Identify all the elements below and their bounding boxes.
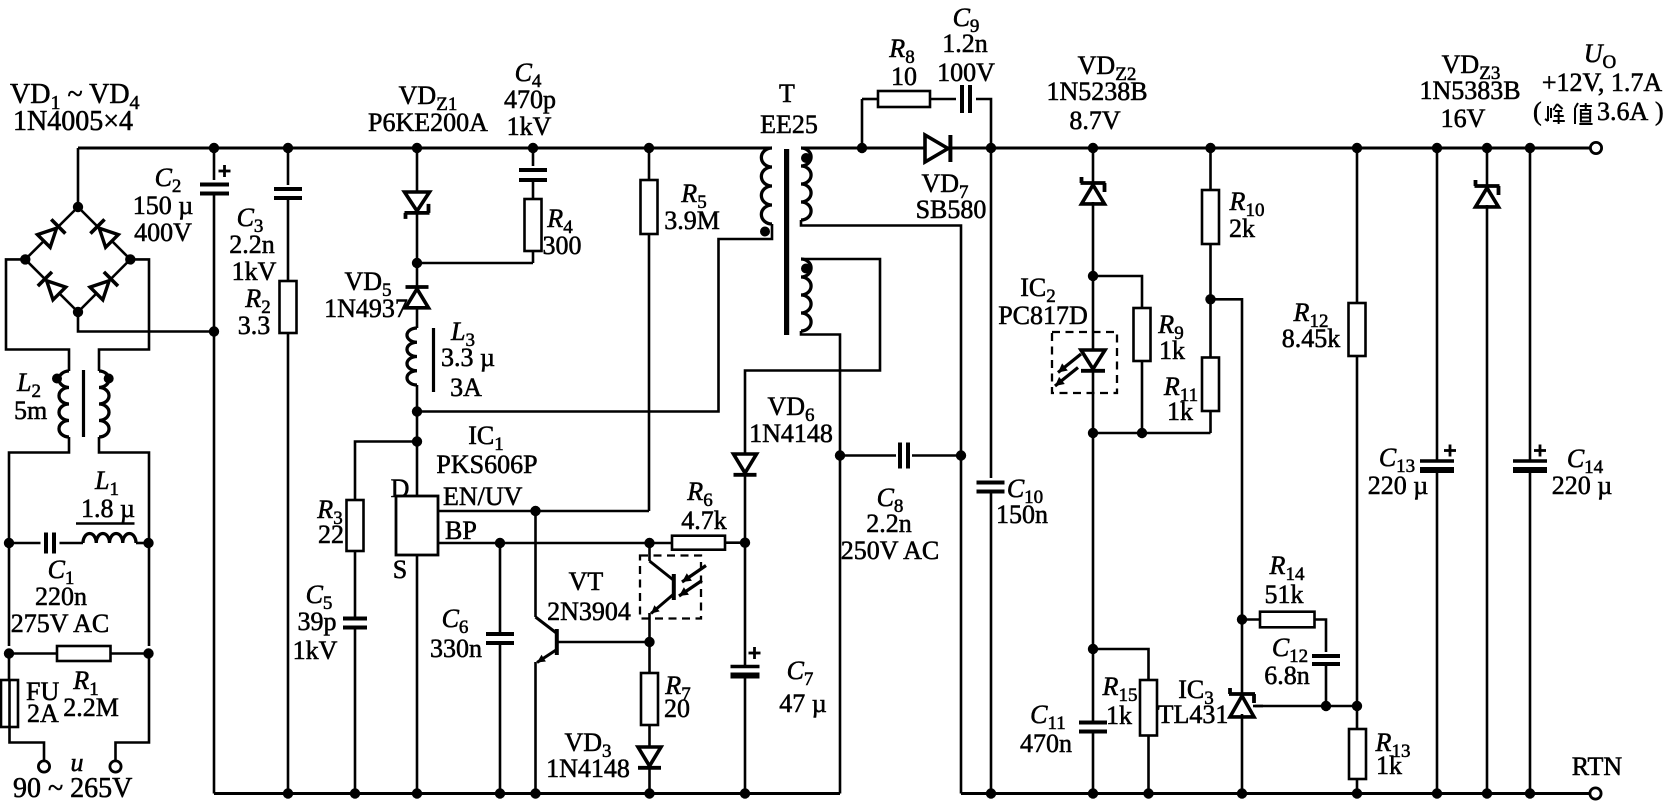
label R12 [1293,298,1329,332]
transistor VT 2N3904 [536,617,558,663]
svg-text:470n: 470n [1020,729,1072,758]
wire C1 left lead [9,542,41,545]
label 1kV C5 [293,636,338,665]
svg-text:220 µ: 220 µ [1368,471,1429,500]
label C2 plus [219,165,231,177]
svg-text:51k: 51k [1265,580,1304,609]
wire R9 top branch [1093,276,1142,308]
label 150n [996,500,1048,529]
label 1kV C4 [507,112,552,141]
label 1k R15 [1106,701,1132,730]
node VT emitter bottom rail junction [530,788,540,798]
label 3.3u [441,343,495,372]
svg-text:EN/UV: EN/UV [443,482,523,511]
wire R12 to ref row [1356,356,1359,706]
node junction BP - R6 - opto [644,538,654,548]
node bridge bottom vertex [73,307,83,317]
bar L1 core line [76,522,135,525]
label C13 plus [1444,445,1456,457]
wire R9 bottom lead [1141,361,1144,433]
wire C11 to bottom rail [1092,732,1095,794]
label R3 [316,495,342,529]
svg-text:4.7k: 4.7k [681,506,727,535]
wire bridge left vertex to L2 [6,259,69,371]
wire R8 to C9 [930,98,956,101]
node junction R14 left [1237,614,1247,624]
wire R3 to C5 [354,551,357,618]
node bridge right vertex [125,254,135,264]
label L2 [16,368,41,402]
resistor R3 [347,500,364,551]
resistor R15 [1140,680,1157,736]
wire left column to fuse [8,654,11,681]
svg-text:22: 22 [318,520,344,549]
label Uo [1584,39,1617,73]
label 2.2n C3 [229,230,275,259]
label SB580 [916,195,987,224]
node rail junction R12 [1352,143,1362,153]
capacitor C3 [274,189,302,198]
wire VD3 to bottom rail [648,768,651,794]
label R10 [1229,187,1265,221]
svg-text:5m: 5m [14,396,47,425]
svg-text:3.6A: 3.6A [1597,97,1649,126]
node junction EN/UV - VT collector [530,506,540,516]
wire R11 bottom lead [1209,411,1212,433]
wire C12 bottom lead [1325,664,1328,706]
label 1N5383B [1419,76,1520,105]
svg-text:PC817D: PC817D [998,301,1088,330]
capacitor C4 [519,170,547,180]
wire VD6 to R6 junction [744,475,747,543]
svg-text:20: 20 [664,694,690,723]
svg-text:2k: 2k [1229,214,1255,243]
wire VDZ1 to junction [416,213,419,263]
label C6 [442,604,469,638]
node junction C8 right [956,450,966,460]
svg-text:D: D [391,474,410,503]
node R15 bottom rail junction [1143,788,1153,798]
wire R10 top lead [1209,148,1212,190]
wire R4 bottom branch [417,262,533,265]
wire R8 branch up [861,99,864,148]
core L2 [82,370,85,437]
wire bridge side top-right [78,207,130,259]
label PC817D [998,301,1088,330]
wire R6 right lead [725,541,745,544]
label VDZ1 [399,81,458,115]
diode VD7 [925,135,950,162]
wire C10 line [990,148,993,478]
label C12 [1272,633,1308,667]
wire VDZ1 top lead [416,148,419,192]
label 3.9M [664,206,720,235]
node rail junction C9/C10 [986,143,996,153]
transformer T secondary winding [801,148,811,220]
svg-text:1N4148: 1N4148 [749,419,833,448]
capacitor C7 [731,667,760,676]
svg-text:EE25: EE25 [760,110,818,139]
label T [779,79,795,108]
wire junction to VD5 [416,263,419,287]
wire TL431 ref row [1255,705,1357,708]
node R13 bottom rail junction [1352,788,1362,798]
wire C7 to bottom rail [744,676,747,794]
wire bridge bottom to junction [78,312,214,332]
node rail junction C4 [528,143,538,153]
transistor IC2 phototransistor [650,561,675,614]
label 1N5238B [1046,77,1147,106]
wire LED to junction [1092,372,1095,434]
label R11 [1163,372,1198,406]
label VT [569,567,604,596]
label L1 [94,466,119,500]
label RTN [1572,752,1623,781]
capacitor C10 [977,483,1005,492]
wire TL431 cathode lead [1241,620,1244,695]
diode VD6 [734,454,757,475]
svg-text:16V: 16V [1441,104,1486,133]
label R9 [1157,310,1183,344]
capacitor C2 [200,185,229,194]
label C13 [1379,443,1415,477]
svg-text:6.8n: 6.8n [1264,661,1310,690]
label VDZ2 [1078,51,1137,85]
wire bias return to bottom rail [839,456,842,794]
diode VD3 [638,747,661,768]
wire VDZ2 top lead [1092,148,1095,183]
terminal RTN [1590,788,1601,799]
label R5 [680,179,706,213]
wire top rail (primary side) [78,147,772,150]
label 2.2M [63,693,119,722]
label P6KE200A [368,108,488,137]
label C3 [237,203,264,237]
label 22 [318,520,344,549]
node junction R6 - VD6 - C7 [740,538,750,548]
label IC2 [1020,273,1056,307]
op-amp IC1 PKS606P body [396,496,438,555]
wire R9 bottom row [1093,432,1211,435]
label TL431 [1158,700,1229,729]
label 100V [937,58,995,87]
wire C10 to bottom rail [990,492,993,794]
wire fuse to input terminal 1 [10,727,45,761]
svg-text:400V: 400V [134,218,192,247]
node C10 bottom rail junction [986,788,996,798]
resistor R9 [1134,308,1151,361]
label 2.2n C8 [866,509,912,538]
label C1 [48,555,75,589]
arrow LED light out 2 [1055,368,1078,387]
wire C3 top lead [287,148,290,185]
svg-text:10: 10 [891,62,917,91]
wire C4 top lead [532,148,535,166]
node R2 bottom rail junction [283,788,293,798]
wire R10 to junction [1209,244,1212,299]
node R1 left junction [4,648,14,658]
svg-text:470p: 470p [504,85,556,114]
node rail junction C2 [209,143,219,153]
svg-text:3.9M: 3.9M [664,206,720,235]
label 1N4148 VD3 [546,754,630,783]
wire BP pin [438,542,672,545]
wire bias bottom lead [801,331,840,456]
node rail junction C3 [283,143,293,153]
svg-text:1k: 1k [1159,336,1185,365]
wire R14 to C12 [1315,620,1327,653]
resistor R6 [672,536,725,550]
diode VD2 (bridge top-right) [90,219,119,248]
node C6 bottom rail junction [495,788,505,798]
wire S pin to bottom rail [416,555,419,794]
node junction L3 bottom [412,406,422,416]
label 250V AC [841,536,940,565]
label R14 [1269,551,1305,585]
capacitor C1 [46,533,54,554]
node secondary phase dot [801,153,811,163]
wire C2 line down to bottom rail [213,195,216,794]
node rail junction R5 [644,143,654,153]
wire L2 right bottom lead [99,437,149,543]
label peak 3.6A [1533,97,1664,126]
node L1 row right junction [143,538,153,548]
node junction C12 - ref row [1321,701,1331,711]
label 1N4005x4 [13,106,133,137]
wire C9 right lead [976,99,991,148]
diode VDZ1 [405,192,430,219]
terminal input 1 [38,761,49,772]
wire C8 right lead [912,454,961,457]
node primary phase dot [760,227,770,237]
svg-text:BP: BP [445,516,477,545]
core L3 bar [432,328,435,392]
label C4 [515,58,542,92]
label C7 plus [749,647,761,659]
label 330n [430,634,482,663]
wire R14 left lead [1242,618,1260,621]
svg-text:P6KE200A: P6KE200A [368,108,488,137]
label C8 [877,483,904,517]
wire opto collector lead [648,543,651,561]
svg-text:8.45k: 8.45k [1282,324,1341,353]
resistor R12 [1349,303,1366,356]
svg-text:150n: 150n [996,500,1048,529]
wire bottom rail (secondary ground) [961,792,1590,795]
wire L1 right lead [136,542,149,545]
wire R8 left lead [862,98,878,101]
diode IC2 LED [1081,350,1105,371]
terminal input 2 [110,761,121,772]
svg-text:330n: 330n [430,634,482,663]
inductor L1 [83,534,136,544]
svg-text:1N5238B: 1N5238B [1046,77,1147,106]
resistor R1 [57,646,111,661]
node L2 left phase dot [52,374,62,384]
node junction R9 bottom [1137,428,1147,438]
svg-text:RTN: RTN [1572,752,1623,781]
wire R5 top lead [648,148,651,180]
node junction VDZ1-R4 [412,258,422,268]
wire VT collector lead [534,511,537,617]
wire secondary bottom lead [801,220,961,456]
svg-text:PKS606P: PKS606P [436,450,537,479]
arrow LED light out 1 [1058,354,1081,373]
svg-text:220n: 220n [35,582,87,611]
wire bottom rail (primary ground) [214,792,840,795]
node R1 right junction [143,648,153,658]
wire junction to D pin node [416,412,419,442]
node rail junction VDZ3 [1482,143,1492,153]
inductor L2 left winding [59,371,69,437]
node rail junction VDZ2 [1088,143,1098,153]
wire R6 junction to C7 [744,543,747,666]
label C14 [1567,444,1604,478]
capacitor C5 [343,619,367,628]
svg-text:TL431: TL431 [1158,700,1229,729]
inductor L3 [407,328,417,385]
wire C4 to R4 [532,181,535,200]
svg-text:220 µ: 220 µ [1552,471,1613,500]
svg-text:1kV: 1kV [293,636,338,665]
label 47u [779,689,827,718]
wire D pin lead [416,442,419,497]
wire junction to C11 [1092,649,1095,722]
wire C13 to bottom rail [1436,471,1439,794]
wire EN/UV pin [438,510,649,513]
svg-text:SB580: SB580 [916,195,987,224]
capacitor C9 [962,85,970,113]
label EE25 [760,110,818,139]
node rail junction VDZ1 [412,143,422,153]
label +12V 1.7A [1542,68,1663,97]
diode VD4 (bridge bottom-right) [89,272,118,301]
label 8.45k [1282,324,1341,353]
wire C1 to L1 [60,542,84,545]
svg-text:3.3: 3.3 [238,311,271,340]
node rail junction R8 branch [857,143,867,153]
wire R15 branch [1093,649,1149,680]
label VD5 [344,267,391,301]
svg-text:(: ( [1533,97,1542,126]
label C7 [787,656,814,690]
diode VDZ2 zener [1081,177,1106,204]
label R6 [686,477,712,511]
resistor R10 [1202,190,1219,244]
svg-text:2.2n: 2.2n [229,230,275,259]
wire left column C1 to R1 [8,543,11,646]
wire L2 left bottom lead [9,437,69,543]
node C1 row left junction [4,538,14,548]
node bridge top vertex [73,202,83,212]
node VDZ3 bottom rail junction [1482,788,1492,798]
label 10 [891,62,917,91]
wire VD5 to L3 [416,308,419,328]
wire R15 to bottom rail [1147,736,1150,794]
svg-text:3.3 µ: 3.3 µ [441,343,495,372]
label 1k R13 [1376,751,1402,780]
label R4 [546,204,573,238]
inductor L2 right winding [99,371,109,437]
label 16V [1441,104,1486,133]
label 1N4937 [324,294,408,323]
wire C14 to bottom rail [1529,471,1532,794]
label 275V AC [11,609,110,638]
svg-text:150 µ: 150 µ [133,191,194,220]
wire C2 top lead [213,148,216,180]
label 39p [298,607,337,636]
arrow opto light in 1 [682,566,706,583]
svg-text:2A: 2A [27,699,59,728]
node C13 bottom rail junction [1432,788,1442,798]
svg-text:1N4005×4: 1N4005×4 [13,106,133,137]
diode VD3a (bridge bottom-left) [38,272,67,301]
label 470p [504,85,556,114]
capacitor C11 [1079,723,1107,732]
diode VDZ3 zener [1475,180,1500,207]
svg-text:+12V, 1.7A: +12V, 1.7A [1542,68,1663,97]
svg-text:): ) [1655,97,1664,126]
label 6.8n [1264,661,1310,690]
label 2k [1229,214,1255,243]
pin EN/UV [443,482,523,511]
node junction C2 bottom [209,326,219,336]
resistor R13 [1349,729,1366,779]
wire R1 right lead [111,652,150,655]
svg-text:90 ~ 265V: 90 ~ 265V [13,773,132,803]
terminal output Uo [1590,142,1601,153]
label FU [26,677,59,706]
svg-text:300: 300 [543,231,582,260]
svg-text:100V: 100V [937,58,995,87]
svg-text:T: T [779,79,795,108]
wire R7 to VD3 [648,725,651,747]
pin S [393,555,407,584]
node C11 bottom rail junction [1088,788,1098,798]
wire VDZ3 top lead [1486,148,1489,186]
label IC1 [468,421,504,455]
resistor R5 [641,180,658,234]
wire right column to input terminal 2 [116,654,150,761]
transformer T primary winding [761,148,772,224]
wire bridge right vertex to L2 [99,259,149,371]
resistor R2 [280,281,297,333]
svg-text:1N5383B: 1N5383B [1419,76,1520,105]
wire VDZ2 to junction [1092,202,1095,276]
node C14 bottom rail junction [1525,788,1535,798]
label 51k [1265,580,1304,609]
resistor R11 [1202,358,1219,412]
wire R12 top lead [1356,148,1359,303]
svg-text:2N3904: 2N3904 [547,597,631,626]
resistor R7 [641,673,658,725]
label 220n [35,582,87,611]
label VDZ3 [1442,50,1501,84]
label R7 [664,671,690,705]
node VD3 bottom rail junction [644,788,654,798]
node junction R10-R11-feedback [1205,294,1215,304]
node bridge left vertex [20,254,30,264]
label 1kV C3 [232,257,277,286]
arrow opto light in 2 [679,581,702,597]
wire bridge side top-left [25,207,78,259]
wire VT emitter to bottom rail [534,662,537,794]
label u [71,748,84,777]
node junction BP - C6 [495,538,505,548]
svg-text:2.2n: 2.2n [866,509,912,538]
svg-text:1k: 1k [1167,397,1193,426]
svg-text:1.2n: 1.2n [942,29,988,58]
